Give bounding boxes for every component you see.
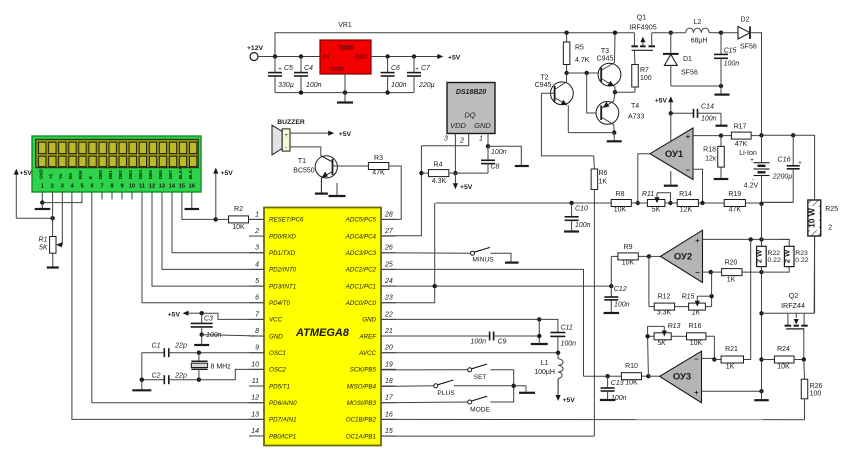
resistor R21 1K (714, 346, 743, 371)
svg-text:MODE: MODE (470, 407, 490, 414)
resistor R9 10K (618, 244, 649, 267)
wire supply down to OU1 (670, 113, 672, 142)
transistor T2 C945 (535, 73, 574, 133)
resistor R10 10K (608, 363, 649, 387)
svg-text:ADC0/PC0: ADC0/PC0 (345, 300, 377, 307)
wire to OU2 apex (649, 255, 661, 257)
svg-text:12: 12 (149, 184, 155, 190)
svg-text:2: 2 (51, 184, 54, 190)
svg-text:100n: 100n (391, 82, 407, 89)
wire OU2 +in to rail (703, 238, 762, 240)
svg-text:T4: T4 (631, 103, 639, 110)
svg-text:16: 16 (189, 184, 195, 190)
wire C16 row to R25 riser (793, 135, 814, 200)
svg-text:ADC5/PC5: ADC5/PC5 (345, 217, 377, 224)
node junction crystal bottom (197, 378, 201, 382)
svg-text:C8: C8 (491, 164, 500, 171)
wire +5V to LCD pin2 (16, 217, 52, 219)
wire SCK pin19 to SET switch (381, 369, 468, 371)
wire LCD pin6 E to ATMEGA pin12 (92, 192, 264, 403)
wire GND pin1 to ground (488, 146, 521, 165)
pin 13 ATMEGA8 PD7/AIN1 (249, 411, 297, 423)
node junction 7805 gnd (343, 90, 347, 94)
svg-text:26: 26 (384, 245, 393, 252)
node junction C16 top (791, 133, 795, 137)
svg-text:D1: D1 (683, 56, 692, 63)
ground T1 emitter (315, 193, 328, 195)
svg-text:IRFZ44: IRFZ44 (781, 301, 805, 310)
LCD module HD44780 16x2 (32, 136, 201, 192)
svg-text:+5V: +5V (339, 131, 352, 138)
resistor R26 100 (801, 360, 822, 420)
node junction OU3+ gnd rail (759, 389, 763, 393)
svg-text:C945: C945 (535, 82, 552, 89)
microcontroller U1 ATMEGA8 (264, 208, 381, 446)
svg-text:R7: R7 (640, 67, 649, 74)
resistor R3 47K (368, 155, 388, 177)
svg-text:1K: 1K (726, 364, 735, 371)
svg-text:PD6/AIN0: PD6/AIN0 (269, 400, 297, 407)
svg-text:19: 19 (385, 361, 393, 368)
svg-text:SET: SET (474, 374, 487, 381)
svg-text:2: 2 (828, 225, 832, 232)
svg-text:+: + (278, 67, 282, 73)
ground C14 (716, 113, 728, 125)
wire D1 anode to ground node (671, 85, 721, 87)
svg-text:4: 4 (255, 261, 259, 268)
svg-text:27: 27 (384, 228, 394, 235)
svg-text:12к: 12к (705, 156, 717, 163)
svg-text:6: 6 (91, 184, 94, 190)
wire OU1 output to R8/R11 node (638, 154, 650, 203)
svg-text:DB6: DB6 (158, 170, 163, 179)
crystal Z1 8MHz (191, 353, 231, 380)
pin 26 ATMEGA8 ADC3/PC3 (345, 245, 396, 257)
node junction T3/T4 emitters R7 (613, 90, 617, 94)
node junction LCD pin1 gnd (40, 200, 44, 204)
pin 16 ATMEGA8 OC1B/PB2 (346, 411, 396, 423)
wire ADC0 pin23 jog (381, 286, 435, 303)
wire LCD pin12 DB5 to ATMEGA pin5 (152, 192, 264, 286)
svg-text:0.22: 0.22 (768, 257, 781, 264)
svg-text:5K: 5K (652, 207, 661, 214)
wire MOSI pin17 to MODE switch (381, 401, 468, 404)
svg-text:R19: R19 (728, 191, 741, 198)
svg-text:−: − (695, 268, 700, 277)
wire OU3 -in (702, 357, 715, 359)
pin 15 ATMEGA8 OC1A/PB1 (346, 428, 396, 440)
svg-text:R24: R24 (777, 346, 790, 353)
wire T1 base to R3 (332, 165, 369, 167)
wire DQ riser down to ATMEGA pin27 (381, 146, 421, 236)
resistor R22 0.22 2W (755, 239, 781, 272)
node junction R19 right rail (759, 202, 763, 206)
wire R19 to rail (745, 202, 761, 204)
svg-text:11: 11 (139, 184, 145, 190)
ground LCD pin16 (185, 208, 200, 210)
svg-text:10: 10 (251, 361, 259, 368)
node +5V output (414, 54, 461, 62)
svg-text:ADC2/PC2: ADC2/PC2 (345, 267, 377, 274)
resistor R16 10K (687, 323, 706, 347)
svg-text:100n: 100n (575, 222, 591, 229)
svg-text:BLK+: BLK+ (178, 167, 183, 179)
svg-text:R16: R16 (689, 323, 702, 330)
voltage regulator VR1 7805 (320, 22, 371, 74)
svg-text:47K: 47K (735, 141, 748, 148)
wire R25 bottom to Q2 row (814, 236, 816, 313)
ground D1 C15 (715, 86, 730, 95)
node junction D1/C15 ground (719, 84, 723, 88)
transistor Q2 IRFZ44 N-MOSFET (781, 291, 808, 360)
svg-text:ADC4/PC4: ADC4/PC4 (345, 233, 377, 240)
op-amp OU2 (660, 230, 702, 282)
wire top bypass rail from +12V node to Q1 source (275, 33, 634, 57)
svg-text:DQ: DQ (464, 111, 475, 120)
svg-text:C9: C9 (498, 339, 507, 346)
ground C3 (194, 335, 209, 345)
switch SB4 MINUS (471, 247, 519, 263)
svg-text:R23: R23 (795, 250, 808, 257)
wire LCD pin1 to pin5 R/W (42, 192, 82, 203)
pin 27 ATMEGA8 ADC4/PC4 (345, 228, 396, 240)
svg-text:22p: 22p (174, 372, 187, 379)
capacitor C14 100n (671, 104, 721, 123)
capacitor C12 100n (604, 286, 629, 312)
ground DS18B20 (515, 165, 529, 167)
svg-text:+: + (694, 388, 699, 397)
pin 5 ATMEGA8 PD3/INT1 (249, 278, 296, 290)
node junction C9 gnd stem (537, 334, 541, 338)
svg-text:PD1/TXD: PD1/TXD (269, 250, 296, 257)
svg-text:3: 3 (255, 245, 259, 252)
svg-text:PD5/T1: PD5/T1 (269, 383, 290, 390)
wire DS18B20 VDD pin3 down (454, 134, 456, 174)
svg-text:T1: T1 (298, 158, 306, 165)
capacitor C15 100n (714, 33, 739, 86)
transistor T1 BC550 (293, 156, 337, 193)
svg-text:SF56: SF56 (681, 70, 698, 77)
pin 12 ATMEGA8 PD6/AIN0 (249, 395, 297, 407)
svg-text:C16: C16 (777, 155, 790, 164)
node junction C7 top (412, 54, 416, 58)
svg-text:8 MHz: 8 MHz (211, 364, 232, 371)
wire R16 to OU3 -in node (706, 336, 715, 359)
capacitor C13 100n (601, 376, 627, 402)
svg-text:+12V: +12V (247, 45, 264, 52)
svg-text:D2: D2 (741, 17, 750, 24)
node +12V input terminal (247, 45, 264, 61)
node junction D1 top on rail (669, 31, 673, 35)
wire GND pin22 row (381, 318, 539, 320)
svg-text:GND: GND (38, 169, 43, 179)
svg-text:L1: L1 (541, 360, 549, 367)
wire rail to C16 top (762, 134, 794, 136)
node junction C12 ADC1 (609, 284, 613, 288)
node junction C10 (569, 201, 573, 205)
resistor R18 12k (703, 136, 724, 178)
node junction pin22 gnd stem (537, 317, 541, 321)
svg-text:7805: 7805 (338, 45, 354, 52)
svg-text:BC550: BC550 (293, 168, 315, 175)
svg-text:12: 12 (251, 395, 259, 402)
svg-text:AREF: AREF (358, 333, 377, 340)
pin 3 ATMEGA8 PD1/TXD (249, 245, 296, 257)
svg-text:+: + (750, 157, 754, 164)
svg-text:T3: T3 (601, 48, 609, 55)
node junction R5 top on rail (564, 31, 568, 35)
wire buzzer+ to +5V (290, 132, 322, 134)
capacitor C2 22p (142, 372, 199, 384)
wire rail down segment (761, 204, 763, 240)
svg-text:18: 18 (385, 378, 393, 385)
wire OU3 +in to rail (702, 390, 762, 392)
resistor R7 100 (615, 65, 652, 93)
svg-text:8: 8 (111, 184, 114, 190)
svg-text:+: + (686, 132, 691, 141)
node junction +5V R2 (214, 217, 218, 221)
pin 10 ATMEGA8 OSC2 (249, 361, 286, 373)
wire ADC1 pin24 row to C12 (381, 285, 611, 287)
wire LCD pin13 DB6 to ATMEGA pin4 (162, 192, 264, 269)
svg-text:DB1: DB1 (108, 170, 113, 179)
wire Q2 row up to R25 (813, 236, 816, 313)
wire OC1A pin15 long to R6 (381, 435, 594, 437)
svg-text:16: 16 (385, 411, 393, 418)
svg-text:28: 28 (384, 211, 393, 218)
svg-text:10K: 10K (625, 380, 638, 387)
pin 18 ATMEGA8 MISO/PB4 (347, 378, 396, 390)
node junction C13 (605, 374, 609, 378)
wire DS18B20 GND pin1 down (487, 134, 489, 147)
svg-text:SCK/PB5: SCK/PB5 (350, 367, 377, 374)
node junction C6 top (385, 54, 389, 58)
svg-text:+: + (798, 161, 802, 167)
node junction AVCC L1 C11 (556, 351, 560, 355)
svg-text:C13: C13 (611, 380, 624, 387)
svg-text:22: 22 (384, 311, 393, 318)
op-amp OU3 (660, 351, 702, 403)
ground switches (514, 386, 535, 393)
pin 23 ATMEGA8 ADC0/PC0 (345, 295, 396, 307)
node junction right rail R17 (759, 133, 763, 137)
svg-text:R13: R13 (668, 323, 681, 330)
sensor U2 DS18B20 (447, 83, 495, 134)
svg-text:C12: C12 (614, 286, 627, 293)
resistor R25 10W (806, 200, 838, 236)
wire OU2 -in to R20 node (703, 271, 711, 273)
svg-text:5: 5 (255, 278, 259, 285)
node junction C4 top (299, 54, 303, 58)
svg-text:1K: 1K (727, 277, 736, 284)
svg-text:PLUS: PLUS (437, 390, 455, 397)
svg-text:BUZZER: BUZZER (277, 119, 305, 126)
svg-text:4.3K: 4.3K (432, 178, 447, 185)
node junction gnd rail C6 (385, 90, 389, 94)
diode D2 SF56 (721, 17, 757, 51)
pin 24 ATMEGA8 ADC1/PC1 (345, 278, 396, 290)
svg-text:10K: 10K (614, 207, 627, 214)
svg-text:DS18B20: DS18B20 (456, 89, 486, 96)
node junction switches common (512, 384, 516, 388)
resistor R2 10K (216, 206, 264, 231)
svg-text:+5V: +5V (460, 184, 473, 191)
node junction R9/OU2 output (647, 254, 651, 258)
wire LCD pin14 DB7 to ATMEGA pin3 (172, 192, 264, 253)
node junction R11 wiper (668, 201, 672, 205)
svg-text:100µH: 100µH (534, 369, 555, 376)
svg-text:100n: 100n (206, 332, 222, 339)
svg-text:4.7K: 4.7K (575, 57, 590, 64)
wire base drive to T3 base (567, 72, 602, 74)
svg-text:23: 23 (384, 295, 393, 302)
svg-text:ADC3/PC3: ADC3/PC3 (345, 250, 377, 257)
wire AVCC pin20 row (381, 352, 558, 354)
node +5V buzzer arrow (322, 131, 352, 138)
svg-text:R9: R9 (624, 244, 633, 251)
pin 7 ATMEGA8 VCC (249, 311, 283, 323)
node junction R22 bottom (759, 270, 763, 274)
wire LCD pin4 RS to ATMEGA pin13 (72, 192, 264, 419)
svg-text:Q2: Q2 (789, 291, 799, 300)
svg-text:R6: R6 (599, 170, 608, 177)
svg-text:47K: 47K (372, 170, 385, 177)
switch SB3 MODE (468, 386, 514, 414)
op-amp OU1 (650, 128, 693, 180)
node junction T4 collector / T2 emitter (612, 130, 616, 134)
wire R23 bottom link (762, 267, 790, 273)
ground OU1 (664, 171, 678, 186)
svg-text:100n: 100n (614, 302, 630, 309)
svg-text:GND: GND (474, 121, 491, 130)
svg-text:DB7: DB7 (168, 170, 173, 179)
svg-text:R5: R5 (575, 45, 584, 52)
switch SB2 PLUS (434, 380, 514, 397)
svg-text:2: 2 (459, 138, 464, 145)
svg-text:1: 1 (41, 184, 44, 190)
svg-text:GND: GND (362, 317, 376, 324)
transistor T3 C945 (597, 33, 621, 92)
svg-text:C945: C945 (597, 56, 614, 63)
wire LCD pin10 stub (131, 192, 133, 200)
svg-text:14: 14 (251, 428, 259, 435)
svg-text:DB2: DB2 (118, 170, 123, 179)
svg-text:R4: R4 (434, 162, 443, 169)
svg-text:ОУ3: ОУ3 (673, 372, 691, 383)
svg-text:T2: T2 (540, 75, 548, 82)
wire LCD pin8 stub (111, 192, 113, 200)
svg-text:14: 14 (169, 184, 176, 190)
wire +12V to 7805 IN (258, 56, 320, 58)
svg-text:OC1B/PB2: OC1B/PB2 (346, 417, 377, 424)
wire LCD pin15 BLK+ to +5V node (182, 192, 216, 219)
wire Q2 drain row (762, 312, 815, 314)
capacitor C3 100n (191, 313, 222, 339)
node junction L2/C15/D2 (719, 31, 723, 35)
wire LCD pin16 BLK- down (191, 192, 193, 208)
svg-text:+5V: +5V (221, 170, 234, 177)
pin 2 ATMEGA8 PD0/RXD (249, 228, 296, 240)
ground above ATMEGA (329, 183, 346, 196)
wire OU3 out riser to R13 (647, 336, 650, 376)
ground C12 (604, 312, 620, 314)
svg-text:DB3: DB3 (128, 170, 133, 179)
capacitor C8 100n (481, 146, 507, 173)
pin 20 ATMEGA8 AVCC (358, 345, 396, 357)
inductor L1 100uH (534, 353, 563, 396)
wire ground rail under 7805 (275, 92, 414, 94)
resistor R23 0.22 2W (780, 239, 809, 266)
svg-text:C15: C15 (724, 48, 737, 55)
wire R15 node to OU2 -in (711, 272, 713, 296)
svg-text:GND: GND (330, 66, 344, 73)
potentiometer R15 1K (682, 294, 712, 317)
pin 11 ATMEGA8 PD5/T1 (249, 378, 290, 390)
svg-text:MOSI/PB3: MOSI/PB3 (347, 400, 377, 407)
buzzer BZ1 (272, 119, 305, 155)
svg-text:10 W: 10 W (806, 207, 816, 228)
svg-text:VCC: VCC (269, 317, 283, 324)
pin 1 ATMEGA8 RESET/PC6 (249, 211, 304, 223)
svg-text:Vo: Vo (58, 173, 63, 179)
svg-text:2 W: 2 W (782, 249, 791, 263)
svg-text:OSC2: OSC2 (269, 367, 286, 374)
wire rail battery row to C16 bottom row (762, 201, 794, 203)
svg-text:1: 1 (255, 211, 259, 218)
svg-text:E: E (88, 176, 93, 179)
svg-text:100n: 100n (724, 61, 740, 68)
svg-text:R8: R8 (616, 191, 625, 198)
svg-text:13: 13 (159, 184, 165, 190)
svg-text:100n: 100n (701, 116, 717, 123)
resistor R12 3.3K (649, 294, 675, 317)
svg-text:+: + (695, 236, 700, 245)
ground C13 (600, 399, 616, 401)
wire C12 node riser to R9 (610, 256, 612, 286)
svg-text:PD7/AIN1: PD7/AIN1 (269, 417, 297, 424)
svg-text:22p: 22p (174, 343, 187, 350)
pin 22 ATMEGA8 GND (362, 311, 396, 323)
wire T4 base riser (587, 73, 602, 113)
svg-text:+5V: +5V (168, 312, 181, 319)
svg-text:BLK-: BLK- (188, 168, 193, 179)
svg-text:AVCC: AVCC (358, 350, 376, 357)
wire ADC2 pin25 to R10 row (381, 269, 584, 376)
svg-text:+5V: +5V (655, 98, 668, 105)
svg-text:A733: A733 (628, 114, 644, 121)
svg-text:4.2V: 4.2V (744, 183, 759, 190)
wire D2 cathode to right rail (750, 33, 762, 136)
node +5V arrow LCD left (14, 169, 33, 219)
svg-text:ATMEGA8: ATMEGA8 (295, 327, 350, 339)
svg-text:10K: 10K (777, 364, 790, 371)
svg-text:R26: R26 (810, 383, 823, 390)
wire DS18B20 DQ pin2 to riser (421, 134, 468, 146)
node junction C1 C2 left (140, 378, 144, 382)
svg-text:0.22: 0.22 (795, 257, 808, 264)
svg-text:MINUS: MINUS (472, 257, 494, 264)
wire ADC3 pin26 to MINUS switch (381, 252, 471, 255)
svg-text:C7: C7 (421, 65, 431, 72)
wire rail segment to OU3+ (761, 313, 763, 391)
svg-text:2 W: 2 W (755, 249, 764, 263)
svg-text:330µ: 330µ (278, 82, 294, 89)
svg-text:C4: C4 (304, 65, 313, 72)
node junction R17 left R18 top (719, 133, 723, 137)
wire pin22 row to C11 (539, 319, 558, 332)
wire R21 right riser to OU2+ row (744, 239, 751, 359)
ground crystal caps (132, 389, 151, 391)
